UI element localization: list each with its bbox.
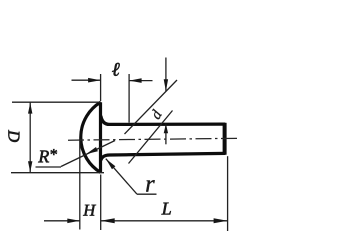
label H	[83, 205, 96, 216]
dimension d: oblique extension line B	[129, 111, 173, 164]
dimension L: dimension line	[101, 220, 228, 222]
R leader line	[61, 141, 115, 167]
dimension l: arrow right	[88, 78, 101, 83]
rivet head: dome arc	[81, 102, 101, 172]
dimension d: arrow up	[164, 124, 168, 134]
shank top line with fillet	[101, 116, 226, 125]
rivet head: flat face line	[99, 102, 102, 172]
r leader line	[106, 159, 137, 195]
label l (script ell)	[112, 63, 120, 76]
dimension D: arrow down	[28, 161, 32, 172]
dimension L: arrow left	[101, 218, 115, 223]
dimension D: dimension line	[29, 102, 31, 172]
dimension l: arrow left	[129, 78, 142, 83]
centerline (axis, dash-dot)	[68, 138, 239, 140]
r leader arrowhead	[106, 159, 116, 170]
dimension l: right extension line	[128, 74, 130, 123]
dimension l: left tail line	[72, 79, 101, 81]
label r	[146, 180, 154, 191]
dimension H: arrow right	[67, 219, 80, 224]
label R	[38, 151, 49, 163]
shared extension line below head face	[100, 175, 102, 231]
dimension L: right extension line	[227, 156, 229, 231]
dimension L: arrow right	[214, 218, 228, 223]
dimension D: top extension line	[12, 101, 101, 103]
dimension d: upper stem	[165, 58, 167, 92]
dimension d: lower stem	[165, 124, 167, 145]
label D (rotated)	[8, 130, 19, 142]
dimension H: left tail	[44, 220, 80, 222]
label L	[161, 203, 170, 215]
label d (rotated)	[152, 109, 162, 120]
dimension D: bottom extension line	[11, 172, 104, 174]
R underline	[36, 166, 62, 168]
dimension H: left extension line	[79, 139, 81, 230]
label R asterisk	[51, 149, 57, 155]
dimension l: right tail line	[129, 80, 152, 82]
dimension d: oblique extension line A	[125, 80, 178, 134]
dimension D: arrow up	[28, 103, 32, 114]
dimension l: left extension line above head	[100, 74, 102, 101]
R leader arrowhead	[86, 147, 98, 154]
r underline	[137, 193, 157, 195]
shank bottom line with fillet	[101, 153, 226, 160]
shank end line	[223, 123, 227, 155]
dimension d: arrow down	[164, 79, 168, 91]
